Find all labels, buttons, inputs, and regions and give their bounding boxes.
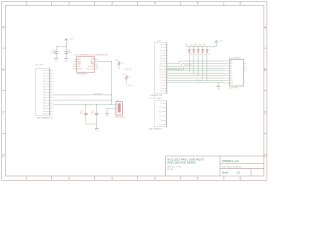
- svg-text:STM32F4_usb: STM32F4_usb: [222, 160, 239, 163]
- svg-text:X1: X1: [117, 100, 119, 102]
- svg-text:USB_MICRO: USB_MICRO: [115, 116, 126, 118]
- svg-text:IO13: IO13: [43, 70, 46, 72]
- svg-text:22p: 22p: [91, 113, 94, 115]
- svg-text:3V3: 3V3: [159, 116, 162, 118]
- svg-text:OSC_IN: OSC_IN: [88, 66, 94, 68]
- svg-text:RX: RX: [160, 107, 162, 109]
- svg-text:D3: D3: [230, 68, 232, 70]
- svg-text:C7: C7: [160, 82, 162, 84]
- svg-text:B14: B14: [160, 72, 163, 74]
- svg-text:GN: GN: [160, 55, 162, 57]
- svg-text:22: 22: [129, 77, 131, 79]
- svg-text:100n: 100n: [51, 52, 55, 54]
- svg-text:CN2: CN2: [158, 41, 162, 43]
- svg-text:IO15: IO15: [43, 76, 46, 78]
- svg-text:PB0: PB0: [43, 108, 46, 110]
- svg-text:C8: C8: [160, 85, 162, 87]
- svg-text:D+: D+: [160, 50, 162, 52]
- svg-text:D1: D1: [230, 63, 232, 65]
- svg-text:2017/09/14 12:30:35: 2017/09/14 12:30:35: [222, 166, 242, 168]
- svg-text:Sheet:: Sheet:: [222, 171, 229, 174]
- svg-text:OSC_OUT: OSC_OUT: [86, 69, 94, 71]
- svg-text:LD4: LD4: [198, 44, 201, 46]
- svg-text:2: 2: [68, 2, 70, 6]
- svg-text:3: 3: [111, 2, 113, 6]
- svg-text:D2: D2: [230, 66, 232, 68]
- svg-text:C3: C3: [81, 111, 83, 113]
- svg-text:PIN_HEADER_17: PIN_HEADER_17: [37, 116, 55, 119]
- svg-text:5V: 5V: [160, 91, 162, 93]
- svg-text:R1: R1: [116, 60, 118, 62]
- svg-text:BY SK: BY SK: [167, 169, 174, 171]
- svg-text:6: 6: [239, 2, 241, 6]
- svg-text:2: 2: [68, 177, 70, 181]
- svg-text:USB_EN: USB_EN: [185, 65, 193, 67]
- svg-text:GN: GN: [160, 77, 162, 79]
- svg-text:TX: TX: [160, 103, 162, 105]
- svg-text:CN1 GPIO: CN1 GPIO: [35, 64, 45, 66]
- svg-text:5: 5: [197, 177, 199, 181]
- svg-text:STP: STP: [230, 80, 233, 82]
- svg-text:4: 4: [154, 2, 156, 6]
- svg-text:PB6: PB6: [91, 64, 94, 66]
- svg-text:RST: RST: [43, 84, 46, 86]
- svg-text:ULPI_PHY: ULPI_PHY: [230, 88, 239, 90]
- svg-text:IC1 STM32F401CCU6 LQFP48 3V3: IC1 STM32F401CCU6 LQFP48 3V3: [74, 54, 108, 56]
- svg-text:LD1: LD1: [185, 44, 188, 46]
- svg-text:+3V3: +3V3: [219, 40, 223, 42]
- svg-text:D7: D7: [230, 78, 232, 80]
- svg-text:LD5: LD5: [203, 44, 206, 46]
- svg-text:PB1: PB1: [43, 111, 46, 113]
- svg-text:6: 6: [239, 177, 241, 181]
- svg-text:C9: C9: [160, 88, 162, 90]
- svg-text:LD2: LD2: [190, 44, 193, 46]
- svg-text:1: 1: [26, 177, 28, 181]
- svg-text:1: 1: [26, 2, 28, 6]
- svg-text:UART HEADER: UART HEADER: [148, 128, 162, 131]
- svg-text:B12: B12: [160, 66, 163, 68]
- svg-text:LD3: LD3: [194, 44, 197, 46]
- svg-text:IO14: IO14: [43, 73, 46, 75]
- svg-text:NXT: NXT: [230, 83, 233, 85]
- svg-text:VB: VB: [160, 44, 162, 46]
- svg-text:22p: 22p: [80, 113, 83, 115]
- svg-text:5: 5: [197, 2, 199, 6]
- svg-text:D0: D0: [230, 61, 232, 63]
- svg-text:22: 22: [121, 63, 123, 65]
- svg-text:JP2 USB_UART: JP2 USB_UART: [148, 97, 163, 100]
- svg-text:5V: 5V: [160, 120, 162, 122]
- svg-text:C6: C6: [160, 80, 162, 82]
- svg-text:B15: B15: [160, 74, 163, 76]
- svg-text:+3V3: +3V3: [69, 38, 73, 40]
- svg-text:B13: B13: [160, 69, 163, 71]
- svg-text:3: 3: [111, 177, 113, 181]
- svg-text:AND DEVICE DEMO: AND DEVICE DEMO: [167, 161, 196, 165]
- svg-text:D4: D4: [230, 70, 232, 72]
- svg-text:D6: D6: [230, 75, 232, 77]
- svg-text:R2: R2: [123, 74, 125, 76]
- svg-text:STM32F401: STM32F401: [77, 74, 87, 76]
- svg-text:USB_DP: USB_DP: [127, 85, 135, 87]
- svg-text:D5: D5: [230, 73, 232, 75]
- svg-text:HEADER 18P: HEADER 18P: [151, 94, 164, 97]
- svg-text:USB_DM: USB_DM: [125, 69, 133, 71]
- svg-text:IC2 USB3300: IC2 USB3300: [230, 57, 241, 59]
- svg-text:USB_LED: USB_LED: [195, 80, 203, 82]
- svg-text:100n: 100n: [68, 52, 72, 54]
- svg-text:4: 4: [154, 177, 156, 181]
- svg-text:BOOT0: BOOT0: [77, 69, 82, 71]
- svg-text:PH0: PH0: [43, 78, 46, 80]
- svg-text:C4: C4: [92, 111, 94, 113]
- svg-text:PB2: PB2: [43, 114, 46, 116]
- svg-text:PH1: PH1: [43, 81, 46, 83]
- svg-text:VSS: VSS: [77, 66, 80, 68]
